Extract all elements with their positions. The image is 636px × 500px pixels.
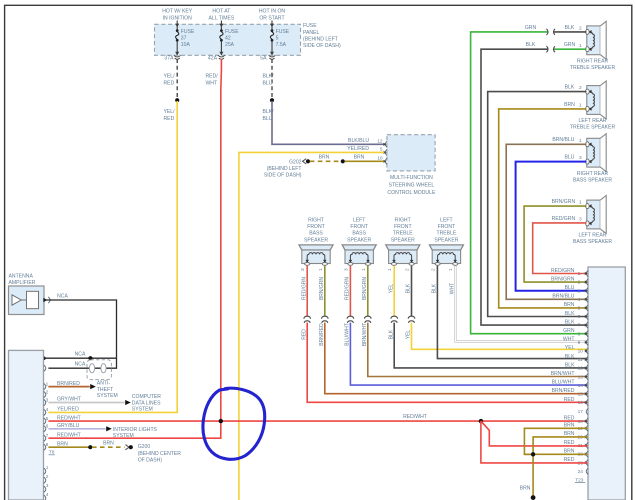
svg-text:BRN: BRN — [564, 302, 575, 308]
svg-text:RED/GRN: RED/GRN — [551, 268, 575, 274]
radio pin 4 YEL/RED — [44, 407, 79, 416]
left front bass speaker — [342, 245, 376, 265]
wire GRY/WHT radio pin 3 to computer data lines system — [48, 400, 130, 405]
label BRN (dashed run) — [103, 440, 114, 446]
svg-text:SPEAKER: SPEAKER — [304, 237, 328, 243]
svg-text:SPEAKER: SPEAKER — [434, 237, 458, 243]
svg-text:2: 2 — [579, 26, 582, 32]
speaker pin number 1 — [579, 103, 582, 109]
inline connector — [547, 46, 555, 52]
svg-text:RED: RED — [301, 329, 307, 340]
svg-text:SYSTEM: SYSTEM — [113, 433, 134, 439]
speaker pin number 2 — [579, 85, 582, 91]
left rear treble speaker — [586, 81, 607, 119]
svg-text:ANTENNA: ANTENNA — [9, 274, 34, 280]
fuse 42 25A — [219, 21, 239, 55]
amplifier pin 2 BRN/GRN — [551, 276, 588, 285]
svg-text:FRONT: FRONT — [438, 224, 456, 230]
svg-text:BLK: BLK — [565, 25, 575, 31]
svg-text:BLK: BLK — [565, 85, 575, 91]
inline connector — [321, 316, 328, 323]
wire fuse 37 dashed lead — [176, 59, 178, 99]
label BRN (right of splice) — [354, 154, 365, 160]
svg-text:BLU: BLU — [565, 285, 575, 291]
radio pin 6 GRY/BLU — [44, 423, 80, 432]
svg-text:BASS: BASS — [352, 231, 366, 237]
wire BRN amplifier pin 20 to splice and down — [533, 437, 587, 498]
svg-text:FUSE: FUSE — [181, 29, 195, 35]
wire NCA antenna amplifier to radio — [44, 300, 117, 368]
amplifier pin 8 GRN — [563, 328, 588, 337]
hand-drawn blue highlight circle around RED/WHT splice — [203, 388, 265, 459]
splice on BRN ground wire (radio) — [88, 445, 92, 449]
module label — [387, 175, 436, 196]
right front bass speaker — [299, 245, 333, 265]
amplifier pin 4 BRN/BLU — [552, 294, 588, 303]
left front treble speaker pin numbers 2,1 — [431, 268, 455, 271]
svg-text:WHT: WHT — [563, 337, 575, 343]
svg-text:(BEHIND LEFT: (BEHIND LEFT — [303, 36, 338, 42]
label BLK/BLU (vertical run) — [263, 109, 275, 122]
svg-text:BLK: BLK — [565, 319, 575, 325]
wire left rear bass speaker - ; RED/GRN to amplifier pin 1 — [533, 223, 588, 274]
svg-text:YEL/RED: YEL/RED — [347, 146, 369, 152]
svg-text:6: 6 — [578, 314, 581, 320]
svg-text:25A: 25A — [225, 42, 235, 48]
svg-text:BRN/RED: BRN/RED — [319, 323, 325, 346]
amplifier pin 7 BLK — [565, 319, 588, 328]
wire left rear treble speaker - ; BRN to amplifier pin 5 — [499, 109, 588, 308]
svg-text:14: 14 — [578, 383, 584, 389]
label BRN (left of splice) — [319, 154, 330, 160]
svg-text:YEL/: YEL/ — [164, 109, 176, 115]
svg-text:ALL TIMES: ALL TIMES — [209, 15, 235, 21]
svg-text:G200: G200 — [138, 444, 151, 450]
fuse panel (behind left side of dash) — [155, 24, 301, 55]
feed label HOT AT ALL TIMES — [209, 9, 235, 22]
wire BRN radio pin 8 to splice — [48, 446, 89, 448]
svg-text:9: 9 — [578, 340, 581, 346]
svg-text:LEFT: LEFT — [440, 218, 452, 224]
svg-text:4: 4 — [46, 492, 49, 498]
svg-text:10A: 10A — [181, 42, 191, 48]
left front treble speaker label — [434, 218, 458, 244]
label RED (lower) — [301, 329, 307, 340]
svg-text:BLU: BLU — [263, 116, 273, 122]
svg-text:BRN/GRN: BRN/GRN — [362, 277, 368, 300]
amplifier pin 22 BRN — [564, 448, 588, 457]
fuse 5 7.5A — [270, 21, 290, 55]
svg-text:FUSE: FUSE — [276, 29, 290, 35]
splice BRN bottom — [531, 495, 536, 500]
label NCA (antenna lead) — [57, 294, 68, 300]
svg-text:7.5A: 7.5A — [276, 42, 287, 48]
label RED/WHT (fuse 42 lead) — [206, 74, 219, 87]
wire right rear treble speaker - ; BLK to amplifier pin 7 — [481, 49, 588, 325]
fuse 37 10A — [175, 21, 195, 55]
wire BLK/BLU fuse 5 to module pin 12 — [272, 101, 384, 144]
svg-text:BLU: BLU — [565, 155, 575, 161]
svg-text:2: 2 — [46, 389, 49, 395]
right rear bass speaker label — [573, 171, 612, 184]
svg-text:STEERING WHEEL: STEERING WHEEL — [389, 183, 435, 189]
radio pin 2 — [44, 389, 49, 397]
svg-text:5: 5 — [578, 306, 581, 312]
amplifier pin 19 BRN — [564, 423, 588, 432]
wire RED splice to amplifier pin 21 — [481, 421, 588, 446]
left front treble speaker — [429, 245, 463, 265]
svg-text:BRN/WHT: BRN/WHT — [551, 371, 575, 377]
radio lower connector pin 3 — [44, 483, 49, 492]
svg-text:RED/GRN: RED/GRN — [345, 277, 351, 300]
svg-text:FUSE: FUSE — [303, 23, 317, 29]
svg-text:12: 12 — [578, 366, 584, 372]
feed label HOT W/ KEY IN IGNITION — [162, 9, 193, 22]
wire BRN amplifier pin 22 from splice — [524, 453, 587, 455]
svg-text:4: 4 — [46, 407, 49, 413]
svg-text:RED/: RED/ — [206, 74, 219, 80]
speaker pin number 1 — [579, 43, 582, 49]
amplifier pin 24 — [578, 468, 589, 475]
svg-text:RED: RED — [164, 80, 175, 86]
radio lower connector pin 4 — [44, 492, 49, 500]
svg-text:BRN: BRN — [354, 154, 365, 160]
svg-text:TREBLE: TREBLE — [393, 231, 413, 237]
wire right rear bass speaker - ; BLU to amplifier pin 3 — [516, 162, 588, 291]
label BLU/WHT (lower) — [345, 323, 351, 346]
svg-text:OF DASH): OF DASH) — [138, 457, 163, 463]
label RED/GRN (upper) — [345, 277, 351, 300]
svg-text:2: 2 — [431, 268, 437, 271]
svg-text:LEFT REAR: LEFT REAR — [579, 233, 607, 239]
label YEL (upper) — [388, 284, 394, 294]
inline connector — [408, 316, 415, 323]
splice on fuse 37 wire — [175, 98, 179, 102]
svg-text:YEL/RED: YEL/RED — [57, 407, 79, 413]
label BLK (speaker side) — [565, 85, 575, 91]
label BRN/GRN (upper) — [362, 277, 368, 300]
inline connector — [547, 29, 555, 35]
left rear treble speaker label — [570, 118, 616, 131]
splice RED/WHT at amplifier tap — [479, 419, 483, 423]
svg-text:5A: 5A — [260, 55, 267, 61]
svg-text:RED: RED — [564, 416, 575, 422]
svg-text:BRN: BRN — [564, 102, 575, 108]
svg-text:3: 3 — [343, 268, 349, 271]
amplifier pin 23 RED — [564, 457, 588, 466]
svg-text:BLK: BLK — [406, 283, 412, 293]
svg-text:GRN: GRN — [525, 25, 537, 31]
antenna amplifier output pin — [43, 297, 50, 303]
svg-text:12: 12 — [377, 138, 383, 144]
label GRN (speaker side) — [564, 42, 576, 48]
svg-text:1: 1 — [387, 268, 393, 271]
left front bass speaker pin numbers 3,1 — [343, 268, 367, 271]
svg-text:BRN/BLU: BRN/BLU — [552, 137, 574, 143]
svg-text:1: 1 — [579, 138, 582, 144]
fuse panel connector pin 37A — [164, 52, 180, 62]
svg-text:FRONT: FRONT — [394, 224, 412, 230]
right front treble speaker label — [391, 218, 415, 244]
svg-text:1: 1 — [579, 103, 582, 109]
module pin 12 — [348, 138, 387, 148]
splice on fuse 5 wire — [270, 98, 274, 102]
wire right rear bass speaker + ; BRN/BLU to amplifier pin 4 — [506, 144, 587, 299]
label BLK/BLU (fuse 5 lead) — [263, 74, 275, 87]
speaker pin number 1 — [579, 138, 582, 144]
label WHT (upper) — [450, 283, 456, 294]
svg-text:13: 13 — [578, 374, 584, 380]
amplifier pin 14 BLU/WHT — [552, 380, 589, 389]
svg-text:1: 1 — [46, 381, 49, 387]
wire BRN amplifier pin 19 to splice — [524, 428, 587, 454]
svg-text:8: 8 — [46, 442, 49, 448]
svg-text:15: 15 — [578, 392, 584, 398]
svg-text:BRN: BRN — [319, 154, 330, 160]
svg-text:RIGHT REAR: RIGHT REAR — [577, 58, 609, 64]
label RED/WHT (long run) — [403, 414, 427, 420]
label BLK (lower) — [388, 329, 394, 339]
svg-text:RIGHT: RIGHT — [308, 218, 324, 224]
wire fuse 5 dashed lead — [271, 59, 273, 99]
svg-text:BRN: BRN — [103, 440, 114, 446]
svg-text:HOT W/ KEY: HOT W/ KEY — [162, 9, 193, 15]
label BLK (upper) — [406, 283, 412, 293]
svg-text:DATA LINES: DATA LINES — [132, 400, 161, 406]
wire BLK left front treble speaker + to amplifier pin 11 — [437, 266, 587, 359]
svg-text:RIGHT: RIGHT — [395, 218, 411, 224]
svg-text:RIGHT REAR: RIGHT REAR — [577, 171, 609, 177]
svg-text:NCA: NCA — [75, 362, 86, 368]
svg-text:SYSTEM: SYSTEM — [97, 393, 118, 399]
radio pin NCA — [44, 365, 46, 371]
label YEL (lower) — [406, 330, 412, 340]
svg-text:(BEHIND CENTER: (BEHIND CENTER — [138, 451, 182, 457]
radio pin 3 GRY/WHT — [44, 397, 81, 406]
svg-text:RED/GRN: RED/GRN — [552, 216, 576, 222]
fuse panel label — [303, 23, 341, 49]
svg-text:24: 24 — [578, 469, 584, 475]
svg-text:5: 5 — [46, 416, 49, 422]
ground G200 — [125, 445, 132, 450]
fuse panel connector pin 5A — [260, 52, 275, 62]
svg-text:YEL: YEL — [406, 330, 412, 340]
svg-text:FUSE: FUSE — [225, 29, 239, 35]
amplifier pin 13 BRN/WHT — [551, 371, 588, 380]
svg-text:HOT AT: HOT AT — [212, 9, 230, 15]
inline connector — [391, 316, 398, 323]
svg-text:7: 7 — [578, 323, 581, 329]
amplifier pin 9 WHT — [563, 337, 588, 346]
radio pin 8 BRN — [44, 441, 68, 450]
splice on NCA stub — [88, 356, 92, 360]
amplifier pin 20 BRN — [564, 431, 588, 440]
amplifier pin 12 BLK — [565, 362, 588, 371]
svg-text:BRN: BRN — [520, 485, 531, 491]
svg-text:42: 42 — [225, 35, 231, 41]
anti-theft system label — [97, 380, 118, 399]
svg-text:GRN: GRN — [563, 328, 575, 334]
wire BRN dashed splice to G200 — [92, 446, 125, 448]
svg-text:42A: 42A — [208, 55, 218, 61]
wire RED/WHT radio pin 5 to amplifier pin 18 — [48, 420, 587, 422]
amplifier pin 15 BRN/RED — [552, 388, 589, 397]
fuse panel connector pin 42A — [208, 52, 225, 62]
svg-text:RED: RED — [564, 397, 575, 403]
svg-text:BASS: BASS — [309, 231, 323, 237]
splice on BRN ground wire — [341, 159, 345, 163]
label BRN/GRN (speaker side) — [552, 199, 576, 205]
svg-text:37A: 37A — [164, 55, 174, 61]
label RED/GRN (upper) — [301, 277, 307, 300]
svg-text:FRONT: FRONT — [350, 224, 368, 230]
amplifier pin 11 BLK — [565, 354, 588, 363]
svg-text:RED/GRN: RED/GRN — [301, 277, 307, 300]
right rear bass speaker — [586, 134, 607, 172]
label NCA (stub) — [75, 351, 86, 357]
wire WHT left front treble speaker - to amplifier pin 9 — [455, 266, 587, 342]
amplifier pin 6 BLK — [565, 311, 588, 320]
wire BRN/GRN right front bass speaker - to amplifier pin 15 — [325, 266, 588, 394]
wire BRN dashed from G202 — [310, 160, 341, 162]
svg-text:INTERIOR LIGHTS: INTERIOR LIGHTS — [113, 427, 158, 433]
wire left rear treble speaker + ; BLK to amplifier pin 6 — [488, 92, 588, 317]
wire left rear bass speaker + ; BRN/GRN to amplifier pin 2 — [524, 206, 587, 282]
antenna amplifier label — [9, 274, 36, 287]
svg-text:BLK: BLK — [565, 362, 575, 368]
wire RED/GRN right front bass speaker + to amplifier pin 16 — [307, 266, 587, 403]
module pin 5 — [347, 146, 387, 156]
wire GRY/BLU radio pin 6 to interior lights system — [48, 426, 111, 431]
amplifier pin 17 — [578, 409, 589, 416]
label BLU (speaker side) — [565, 155, 575, 161]
svg-text:3: 3 — [46, 483, 49, 489]
interior lights system label — [113, 427, 158, 439]
label BLK (harness side) — [526, 42, 536, 48]
svg-text:BLU/WHT: BLU/WHT — [552, 380, 575, 386]
wire RED splice to amplifier pin 23 — [481, 421, 588, 463]
svg-text:BASS SPEAKER: BASS SPEAKER — [573, 177, 612, 183]
svg-text:BRN/GRN: BRN/GRN — [319, 277, 325, 300]
svg-text:BASS SPEAKER: BASS SPEAKER — [573, 239, 612, 245]
svg-text:TREBLE: TREBLE — [436, 231, 456, 237]
speaker pin number 3 — [579, 155, 582, 161]
amplifier pin 1 RED/GRN — [551, 268, 588, 277]
svg-text:8: 8 — [578, 331, 581, 337]
svg-text:BLK/BLU: BLK/BLU — [348, 138, 369, 144]
svg-text:LEFT REAR: LEFT REAR — [579, 118, 607, 124]
svg-text:SPEAKER: SPEAKER — [347, 237, 371, 243]
svg-text:THEFT: THEFT — [97, 387, 113, 393]
radio pin 1 BRN/RED — [44, 381, 80, 390]
label GRN (harness side) — [525, 25, 537, 31]
inline connector — [364, 316, 371, 323]
label BLK (speaker side) — [565, 25, 575, 31]
svg-text:BRN/RED: BRN/RED — [552, 388, 575, 394]
svg-text:ANTI-: ANTI- — [97, 380, 111, 386]
svg-text:WHT: WHT — [450, 283, 456, 294]
feed label HOT IN ON OR START — [259, 9, 286, 22]
svg-text:RED: RED — [164, 116, 175, 122]
label BRN/BLU (speaker side) — [552, 137, 574, 143]
module pin 10 — [377, 155, 387, 164]
svg-text:BLK: BLK — [388, 329, 394, 339]
label BRN/GRN (upper) — [319, 277, 325, 300]
svg-text:IN IGNITION: IN IGNITION — [163, 15, 192, 21]
svg-text:HOT IN ON: HOT IN ON — [259, 9, 286, 15]
svg-text:3: 3 — [579, 155, 582, 161]
svg-text:GRN: GRN — [564, 42, 576, 48]
svg-text:BLK: BLK — [565, 354, 575, 360]
radio pin 5 RED/WHT — [44, 415, 81, 424]
right front treble speaker pin numbers 1,2 — [387, 268, 411, 271]
splice BRN (pins 19/20/22) — [531, 452, 535, 456]
svg-text:5: 5 — [276, 35, 279, 41]
svg-text:RED/WHT: RED/WHT — [57, 432, 81, 438]
radio unit — [9, 350, 44, 500]
wire BRN/GRN left front bass speaker - to amplifier pin 13 — [368, 266, 588, 377]
svg-text:TREBLE SPEAKER: TREBLE SPEAKER — [570, 125, 616, 131]
svg-text:BLU/WHT: BLU/WHT — [345, 323, 351, 346]
svg-text:3: 3 — [579, 217, 582, 223]
svg-text:1: 1 — [579, 200, 582, 206]
svg-text:SIDE OF DASH): SIDE OF DASH) — [303, 43, 341, 49]
svg-text:2: 2 — [405, 268, 411, 271]
antenna amplifier — [9, 286, 45, 315]
label YEL/RED (vertical run) — [164, 109, 176, 122]
ground G202 — [289, 159, 310, 166]
svg-text:SYSTEM: SYSTEM — [132, 407, 153, 413]
wire right rear treble speaker + ; GRN to amplifier pin 8 — [471, 32, 588, 334]
svg-text:BRN/BLU: BRN/BLU — [552, 294, 574, 300]
amplifier pin 18 RED — [564, 416, 588, 425]
svg-text:17: 17 — [578, 409, 584, 415]
svg-text:18: 18 — [578, 419, 584, 425]
svg-text:1: 1 — [578, 271, 581, 277]
left rear bass speaker — [586, 196, 607, 234]
computer data lines system label — [132, 394, 161, 413]
wire BRN/RED radio pin 1 to anti-theft system — [48, 384, 95, 389]
speaker pin number 1 — [579, 200, 582, 206]
right rear treble speaker — [586, 21, 607, 59]
label BRN/WHT (lower) — [362, 323, 368, 346]
svg-text:WHT: WHT — [206, 80, 218, 86]
wire YEL/RED fuse 37 to radio pin 4 — [48, 101, 177, 412]
label NCA (radio pin) — [75, 362, 86, 368]
svg-text:SPEAKER: SPEAKER — [391, 237, 415, 243]
amplifier pin 21 RED — [564, 440, 588, 449]
svg-text:OR START: OR START — [259, 15, 284, 21]
svg-text:1: 1 — [318, 268, 324, 271]
inline connector — [304, 316, 311, 323]
left front bass speaker label — [347, 218, 371, 244]
radio lower connector pin 2 — [44, 474, 49, 483]
svg-text:AMPLIFIER: AMPLIFIER — [9, 280, 36, 286]
svg-text:(BEHIND LEFT: (BEHIND LEFT — [267, 166, 302, 172]
svg-text:YEL/: YEL/ — [164, 74, 176, 80]
svg-text:YEL: YEL — [388, 284, 394, 294]
wire NCA radio stub — [42, 356, 117, 360]
wire YEL right front treble speaker + to amplifier pin 12 — [394, 266, 587, 368]
wire RED/GRN left front bass speaker + to amplifier pin 14 — [350, 266, 587, 385]
svg-text:4: 4 — [578, 297, 581, 303]
svg-text:BRN/WHT: BRN/WHT — [362, 323, 368, 346]
svg-text:37: 37 — [181, 35, 187, 41]
svg-text:NCA: NCA — [57, 294, 68, 300]
label BRN (speaker side) — [564, 102, 575, 108]
svg-text:BLU: BLU — [263, 80, 273, 86]
radio lower connector pin 1 — [44, 465, 49, 474]
